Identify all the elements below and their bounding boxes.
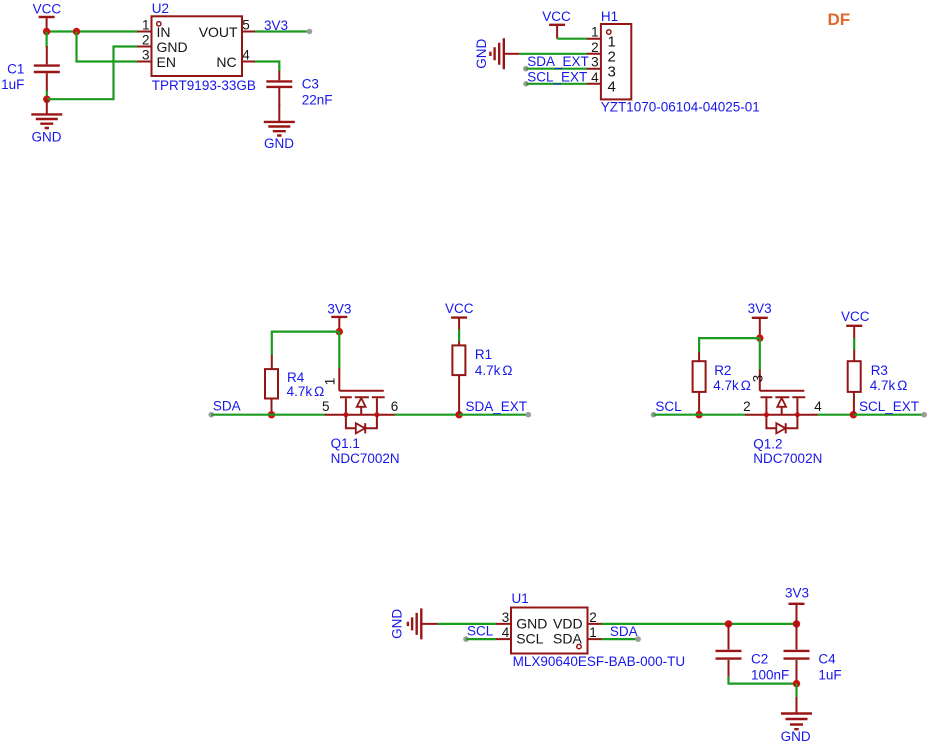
junction VDD/C4/3V3: [793, 620, 800, 627]
svg-text:2: 2: [591, 40, 599, 55]
svg-text:SCL: SCL: [655, 399, 682, 414]
svg-text:1: 1: [142, 18, 150, 33]
port dot SCL: [651, 412, 657, 418]
port dot SDA_EXT (header): [523, 66, 529, 72]
power flag VCC (R3): [841, 309, 870, 339]
svg-text:4: 4: [591, 70, 599, 85]
svg-text:C3: C3: [302, 76, 319, 91]
svg-text:4.7kΩ: 4.7kΩ: [287, 384, 325, 399]
capacitor C2: [716, 624, 790, 683]
svg-text:C2: C2: [751, 652, 768, 667]
transistor Q1.2: [743, 369, 822, 466]
svg-text:4: 4: [242, 48, 250, 63]
power flag 3V3 (U1): [785, 586, 809, 624]
svg-text:Q1.2: Q1.2: [753, 437, 782, 452]
svg-text:VCC: VCC: [445, 301, 474, 316]
power flag VCC (header H1): [542, 9, 571, 39]
junction C2/C4/GND: [793, 680, 800, 687]
svg-text:3: 3: [142, 48, 150, 63]
ground GND (header H1, rotated): [474, 38, 520, 69]
svg-text:SCL: SCL: [467, 624, 494, 639]
svg-text:GND: GND: [781, 729, 811, 744]
wire junction to SDA_EXT port: [459, 414, 528, 416]
wire 3V3 junction to Q1.2 gate: [759, 338, 761, 370]
ground GND (below C1): [31, 99, 62, 144]
port dot SDA (U1): [635, 636, 641, 642]
svg-text:5: 5: [242, 18, 250, 33]
svg-text:4: 4: [608, 79, 616, 96]
capacitor C4: [784, 624, 842, 684]
svg-text:3: 3: [751, 375, 766, 383]
svg-text:U2: U2: [152, 1, 169, 16]
svg-text:4: 4: [502, 625, 510, 640]
wire VCC to R3: [853, 338, 855, 350]
capacitor C1: [1, 46, 60, 92]
svg-text:NDC7002N: NDC7002N: [753, 451, 822, 466]
port dot SDA_EXT: [526, 412, 532, 418]
svg-text:3: 3: [502, 610, 510, 625]
wire SCL_EXT to H1 pin 4: [526, 83, 587, 85]
svg-text:R2: R2: [714, 363, 731, 378]
resistor R4: [265, 355, 324, 415]
wire SDA_EXT to H1 pin 3: [526, 68, 587, 70]
wire VCC rail to U2 pin 1: [47, 30, 138, 32]
svg-text:GND: GND: [264, 136, 294, 151]
svg-text:1uF: 1uF: [1, 77, 24, 92]
power flag 3V3 (SDA shifter): [327, 302, 351, 329]
svg-text:3V3: 3V3: [785, 586, 809, 601]
wire GND to H1 pin 2: [519, 53, 587, 55]
wire Q1.1 pin 6 to SDA_EXT junction: [395, 414, 460, 416]
wire 3V3 to R4: [272, 332, 340, 356]
svg-text:GND: GND: [157, 39, 188, 55]
wire VCC down to C1: [45, 32, 47, 48]
svg-text:4.7kΩ: 4.7kΩ: [870, 378, 908, 393]
wire VOUT to 3V3 port: [255, 30, 309, 32]
sensor U1: [496, 591, 685, 669]
wire U1 VDD to 3V3 rail: [602, 623, 797, 625]
svg-text:SDA: SDA: [213, 399, 241, 414]
svg-text:GND: GND: [516, 616, 547, 632]
svg-text:VOUT: VOUT: [199, 24, 238, 40]
wire GND to U1 pin 3: [438, 623, 497, 625]
wire VCC to R1: [458, 330, 460, 343]
port dot SCL (U1): [463, 636, 469, 642]
svg-text:4.7kΩ: 4.7kΩ: [475, 363, 513, 378]
svg-text:R4: R4: [287, 370, 305, 385]
svg-text:R1: R1: [475, 347, 492, 362]
junction at C1/GND: [43, 96, 50, 103]
wire junction to SCL_EXT port: [853, 414, 924, 416]
svg-text:GND: GND: [474, 39, 489, 69]
power flag VCC (R1): [445, 301, 474, 330]
svg-text:EN: EN: [157, 54, 176, 70]
ground GND (U1 bottom): [781, 684, 812, 745]
svg-text:VCC: VCC: [33, 2, 62, 17]
svg-text:SCL_EXT: SCL_EXT: [859, 399, 919, 414]
resistor R3: [848, 350, 908, 415]
wire SDA to Q1.1 pin 5: [211, 414, 325, 416]
wire C2 to GND rail: [729, 677, 797, 684]
svg-text:VDD: VDD: [553, 616, 583, 632]
svg-text:4.7kΩ: 4.7kΩ: [713, 378, 751, 393]
resistor R1: [452, 342, 512, 415]
svg-text:H1: H1: [601, 9, 618, 24]
svg-text:6: 6: [391, 399, 399, 414]
svg-text:1: 1: [591, 25, 599, 40]
junction 3V3/gate (SCL): [756, 334, 763, 341]
wire U1 pin 1 to SDA port: [602, 638, 639, 640]
svg-text:1: 1: [322, 378, 337, 386]
junction SDA/R4: [268, 411, 275, 418]
junction SCL_EXT/R3: [850, 411, 857, 418]
svg-text:5: 5: [322, 399, 330, 414]
ground GND (below C3): [264, 104, 295, 151]
wire NC to C3: [255, 62, 279, 72]
power flag VCC (top-left): [33, 2, 62, 32]
wire EN net from VCC junction to U2 pin 3: [77, 32, 138, 62]
svg-text:C1: C1: [7, 62, 24, 77]
svg-text:VCC: VCC: [542, 9, 571, 24]
power flag 3V3 (SCL shifter): [748, 301, 772, 334]
resistor R2: [693, 352, 751, 415]
svg-text:SCL: SCL: [516, 631, 543, 647]
port dot 3V3: [307, 29, 313, 35]
svg-text:VCC: VCC: [841, 309, 870, 324]
svg-text:4: 4: [814, 399, 822, 414]
svg-text:100nF: 100nF: [751, 668, 789, 683]
svg-text:IN: IN: [157, 24, 171, 40]
svg-text:U1: U1: [512, 591, 529, 606]
svg-text:Q1.1: Q1.1: [331, 436, 360, 451]
junction at VCC/EN branch: [73, 28, 80, 35]
svg-text:NDC7002N: NDC7002N: [331, 451, 400, 466]
wire C1 to GND junction: [46, 91, 48, 100]
svg-text:2: 2: [142, 33, 150, 48]
svg-text:SDA_EXT: SDA_EXT: [527, 54, 589, 69]
svg-text:SDA_EXT: SDA_EXT: [466, 399, 528, 414]
svg-text:3V3: 3V3: [748, 301, 772, 316]
header H1: [587, 9, 760, 114]
svg-text:2: 2: [589, 610, 597, 625]
svg-text:SCL_EXT: SCL_EXT: [527, 69, 587, 84]
junction at VCC/C1: [43, 28, 50, 35]
wire 3V3 junction to Q1.1 gate: [338, 332, 340, 369]
wire VCC to H1 pin 1: [557, 38, 587, 40]
svg-text:TPRT9193-33GB: TPRT9193-33GB: [152, 78, 256, 93]
svg-text:DF: DF: [828, 10, 851, 29]
voltage regulator U2: [137, 1, 256, 93]
svg-text:3: 3: [591, 55, 599, 70]
junction VDD/C2: [725, 620, 732, 627]
wire Q1.2 pin 4 to SCL_EXT junction: [818, 414, 854, 416]
svg-text:3V3: 3V3: [264, 18, 288, 33]
svg-text:2: 2: [743, 399, 751, 414]
wire GND net to U2 pin 2: [47, 47, 138, 100]
junction SCL/R2: [695, 411, 702, 418]
wire 3V3 to R2: [699, 338, 760, 352]
transistor Q1.1: [322, 368, 400, 466]
wire SCL to U1 pin 4: [466, 638, 497, 640]
svg-text:GND: GND: [32, 129, 62, 144]
svg-text:GND: GND: [390, 609, 405, 639]
svg-text:SDA: SDA: [610, 624, 638, 639]
ground GND (U1, rotated): [390, 608, 438, 639]
svg-text:3V3: 3V3: [327, 302, 351, 317]
svg-text:C4: C4: [818, 652, 836, 667]
svg-text:R3: R3: [871, 363, 888, 378]
junction SDA_EXT/R1: [455, 411, 462, 418]
svg-text:1uF: 1uF: [818, 668, 841, 683]
port dot SCL_EXT (header): [523, 81, 529, 87]
svg-text:YZT1070-06104-04025-01: YZT1070-06104-04025-01: [601, 100, 760, 115]
port dot SCL_EXT: [921, 412, 927, 418]
svg-text:22nF: 22nF: [302, 92, 333, 107]
junction 3V3/gate: [336, 328, 343, 335]
svg-text:1: 1: [589, 625, 597, 640]
port dot SDA: [209, 412, 215, 418]
wire SCL to Q1.2 pin 2: [654, 414, 747, 416]
svg-text:MLX90640ESF-BAB-000-TU: MLX90640ESF-BAB-000-TU: [513, 654, 686, 669]
capacitor C3: [266, 71, 332, 108]
svg-text:NC: NC: [216, 54, 236, 70]
